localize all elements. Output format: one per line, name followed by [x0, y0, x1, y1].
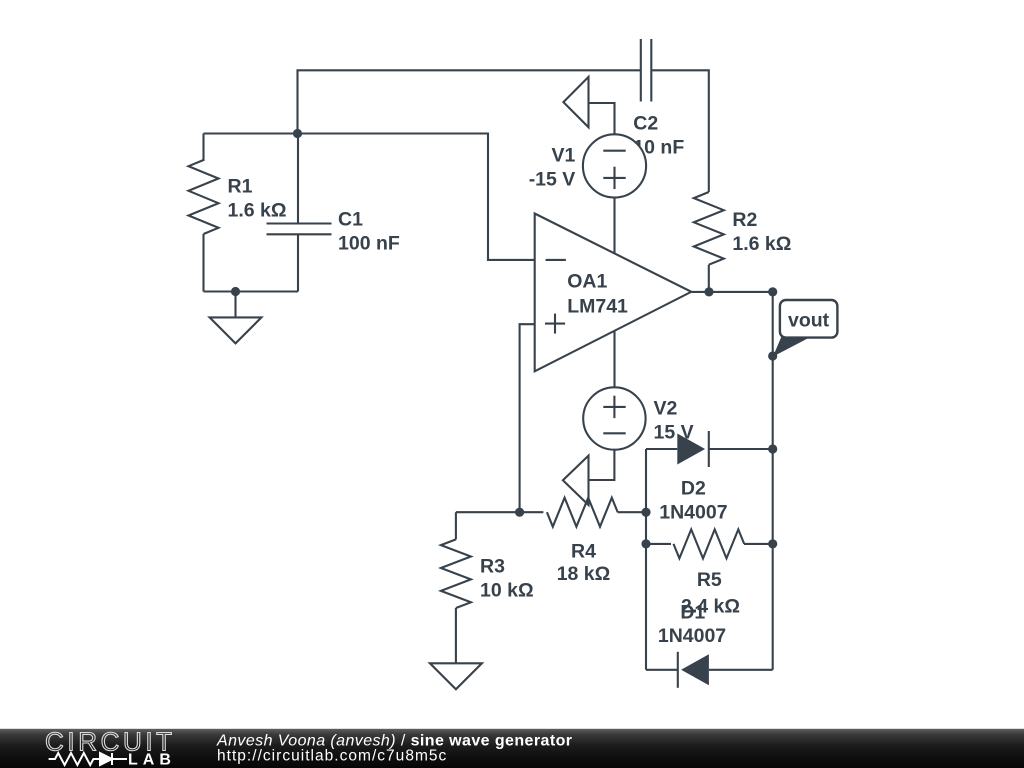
voltage source V2: [583, 387, 645, 480]
svg-text:-15 V: -15 V: [529, 168, 576, 190]
capacitor C1: [267, 134, 332, 292]
svg-text:1N4007: 1N4007: [658, 625, 726, 647]
node vout: [773, 300, 838, 357]
diode D1: [646, 652, 773, 688]
svg-text:R1: R1: [228, 176, 253, 198]
wire left diode rail: [645, 449, 647, 670]
svg-text:100 nF: 100 nF: [338, 233, 400, 255]
svg-text:OA1: OA1: [567, 271, 607, 293]
resistor R5: [646, 529, 773, 558]
footer bar: [0, 729, 1024, 768]
voltage source V1: [583, 103, 646, 197]
svg-text:D1: D1: [680, 601, 705, 623]
resistor R3: [441, 512, 471, 663]
wire right rail to D1: [772, 449, 774, 670]
wire top feedback left segment: [298, 70, 641, 133]
svg-text:D2: D2: [681, 478, 706, 500]
svg-text:http://circuitlab.com/c7u8m5c: http://circuitlab.com/c7u8m5c: [217, 748, 447, 765]
ground: [430, 663, 482, 689]
svg-text:10 kΩ: 10 kΩ: [480, 579, 534, 601]
wire top feedback right segment: [651, 70, 709, 192]
svg-text:1.6 kΩ: 1.6 kΩ: [228, 200, 287, 222]
power flag V2: [563, 456, 589, 505]
ground: [210, 292, 262, 344]
svg-text:1N4007: 1N4007: [659, 502, 727, 524]
wire R4 right to diode rail: [618, 511, 646, 513]
svg-text:V1: V1: [551, 144, 575, 166]
wire R4 left to R3: [456, 511, 520, 513]
svg-text:R3: R3: [480, 555, 505, 577]
resistor R4: [520, 498, 618, 527]
wire non-inverting input: [520, 324, 535, 512]
svg-text:LAB: LAB: [128, 752, 176, 768]
wire output right rail down: [772, 292, 774, 449]
svg-text:1.6 kΩ: 1.6 kΩ: [732, 233, 791, 255]
wire op-amp output: [691, 291, 772, 293]
svg-text:R5: R5: [697, 569, 722, 591]
wire R1 C1 bottom: [204, 290, 299, 292]
svg-text:vout: vout: [788, 310, 830, 332]
svg-text:R4: R4: [571, 540, 596, 562]
resistor R2: [694, 192, 724, 292]
capacitor C2: [641, 39, 652, 102]
svg-text:C2: C2: [633, 113, 658, 135]
wire inverting input net: [204, 134, 535, 260]
svg-text:LM741: LM741: [567, 295, 628, 317]
op-amp V- pin: [613, 328, 615, 387]
svg-text:V2: V2: [654, 398, 678, 420]
svg-text:18 kΩ: 18 kΩ: [557, 563, 611, 585]
svg-text:C1: C1: [338, 209, 363, 231]
op-amp U1 OA1: [535, 214, 692, 372]
diode D2: [646, 431, 773, 467]
resistor R1: [189, 134, 219, 292]
logo resistor-diode glyph: [49, 753, 127, 765]
op-amp V+ pin: [613, 198, 615, 257]
power flag V1: [563, 77, 588, 127]
svg-text:R2: R2: [732, 209, 757, 231]
